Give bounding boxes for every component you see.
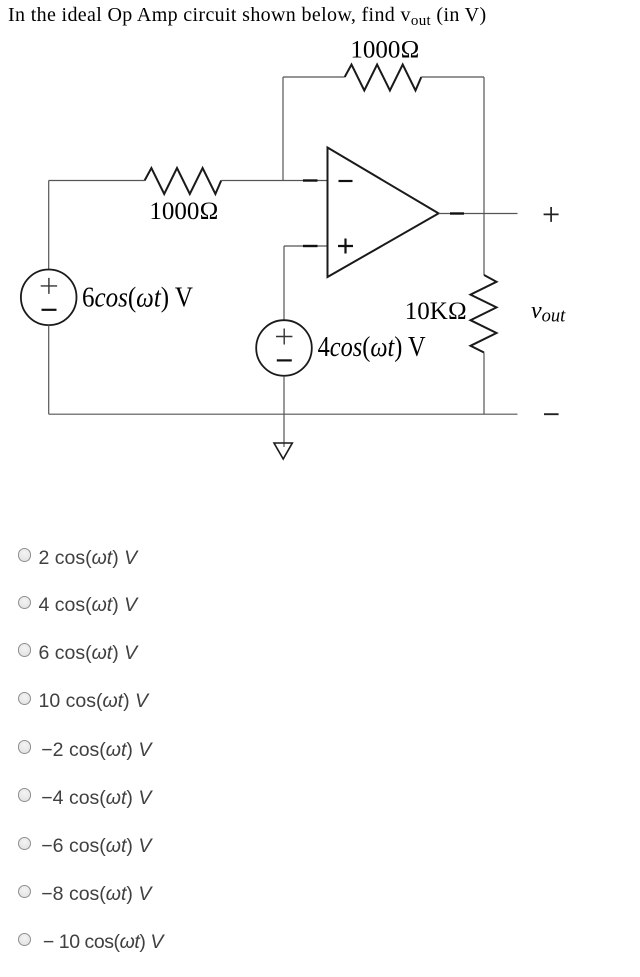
voltage source V1 6cos circle [21,270,77,326]
voltage source V2 minus sign [277,359,292,361]
label: output minus terminal [544,413,559,415]
op-amp U1 minus input sign [339,180,353,182]
resistor R2 1000 ohm feedback zigzag [345,65,422,91]
answer option 8 [0,884,640,912]
voltage source V1 plus sign [41,278,57,294]
wire: left vertical source V1 top [48,181,50,270]
wire: input wire left segment [49,180,145,182]
wire: feedback left vertical (node A to top) [282,77,284,181]
answer option 2 [0,595,640,623]
resistor R3 10K ohm vertical zigzag [471,275,497,353]
voltage source V2 4cos circle [256,320,312,376]
wire: right vertical output node to resistor R3 top [483,214,485,276]
answer option 7 [0,836,640,864]
svg-text:10KΩ: 10KΩ [405,298,467,325]
answer option 3 [0,643,640,671]
svg-text:1000Ω: 1000Ω [149,198,218,225]
wire: op-amp output [439,213,518,215]
pin stub: op-amp non-inverting input [303,245,318,247]
wire: source V2 bottom through rail to ground [283,376,285,447]
op-amp U1 plus input sign [338,239,353,254]
circuit schematic [0,0,640,500]
svg-text:6cos(ωt) V: 6cos(ωt) V [82,283,193,314]
answer option 1 [0,548,640,576]
pin stub: op-amp output [450,212,464,214]
wire: source V2 vertical from non-inverting input [283,246,285,320]
voltage source V1 minus sign [42,309,57,311]
svg-text:4cos(ωt) V: 4cos(ωt) V [318,332,426,363]
wire: feedback top left segment [283,76,345,78]
wire: left vertical source V1 bottom to rail [48,325,50,414]
voltage source V2 plus sign [276,329,292,345]
title [8,4,487,27]
wire: right vertical from feedback to output node [483,77,485,214]
wire: input wire right segment to op-amp [221,180,327,182]
answer option 4 [0,691,640,719]
svg-text:1000Ω: 1000Ω [350,37,419,64]
label: output plus terminal [544,207,559,222]
wire: right vertical resistor R3 bottom to bottom rail [483,353,485,415]
answer option 9 [0,932,640,960]
op-amp U1 triangle [328,148,439,278]
ground symbol [274,443,292,459]
answer option 6 [0,788,640,816]
pin stub: op-amp inverting input [303,179,318,181]
wire: feedback top right segment [421,76,484,78]
wire: bottom rail [49,413,518,415]
svg-text:vout: vout [531,298,566,327]
wire: non-inverting input horizontal [284,245,328,247]
resistor R1 1000 ohm input zigzag [145,168,222,194]
answer option 5 [0,740,640,768]
